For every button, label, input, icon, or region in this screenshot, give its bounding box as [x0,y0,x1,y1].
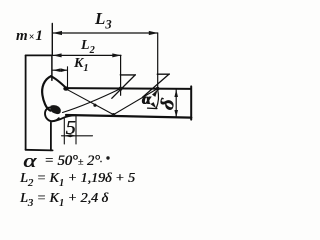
dimension line K1 [52,69,67,71]
flange left edge [25,55,27,149]
weld bead small lobe [45,107,59,121]
arrowhead L3 right [149,31,158,35]
weld underside sag [53,115,76,121]
arrowhead L2 right [112,53,121,57]
weld zone leg D [114,89,158,115]
extension tick K1 right [67,67,69,89]
arrowhead 5 right [70,134,76,137]
arrowhead L3 left [53,31,62,35]
junction dot X crossing [93,104,96,107]
formula line 2 [20,171,135,189]
flange right edge upper [51,55,53,80]
slash mark 2 [143,74,170,97]
label m x 1 [16,28,44,45]
junction dot V bottom [112,113,116,117]
extension line 5 left [63,119,65,145]
weld zone leg B [63,89,121,113]
arrowhead 5 left [64,134,70,137]
bar top edge [65,87,191,90]
extension line 5 right [75,116,77,144]
formula line 3 [20,191,108,209]
weld bead top transition to bar [51,76,67,89]
flange bottom edge [26,149,53,152]
arrowhead K1 right [61,68,68,72]
label delta rotated [156,96,181,113]
dimension line delta [175,89,177,117]
arrowhead delta top [174,89,178,97]
flange right edge lower [50,123,52,151]
arrowhead delta bottom [174,110,178,117]
weld bead big lobe [42,76,51,110]
scan speck [100,161,102,163]
dimension line L2 [52,54,121,56]
bar right end edge [190,86,192,119]
arrowhead K1 left [53,68,61,72]
label alpha small [142,91,151,109]
extension line L3 right (down to weld end) [157,33,159,88]
weld root junction blob [50,105,61,114]
dimension line L3 [53,32,158,34]
weld zone leg A [67,89,114,114]
label K1 [74,56,89,74]
junction dot L3 point [156,87,160,91]
scan dot [106,156,109,159]
extension line (left, from flange corner up) [51,24,53,56]
junction dot L2 point [118,87,122,91]
extension line L2 right (down to bar top) [120,55,122,95]
angle tail line [148,107,158,110]
label 5 [66,117,76,140]
angle arc arrowhead top [152,89,158,97]
weld top junction blob [63,86,68,90]
formula line 1 [23,151,36,173]
label L3 [95,9,112,32]
arrowhead L2 left [53,53,62,57]
slash cap 2 [157,73,169,75]
flange top edge [26,54,52,56]
angle arc arrowhead bottom [150,102,156,108]
slash cap 1 [120,74,135,76]
slash mark 1 [112,75,136,99]
dimension line 5 [62,135,93,137]
angle arc alpha [156,89,158,108]
label L2 [81,38,95,56]
bar bottom edge [66,115,191,118]
